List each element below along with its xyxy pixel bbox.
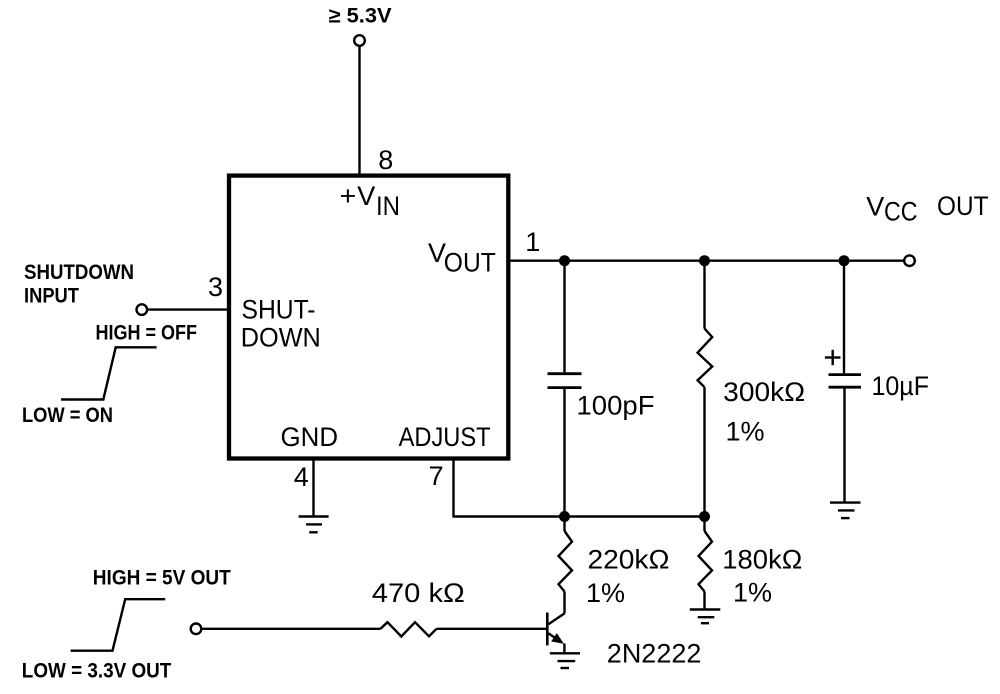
svg-text:470 kΩ: 470 kΩ	[372, 578, 465, 608]
terminal VCC OUT circle	[904, 255, 915, 266]
svg-text:3: 3	[208, 272, 223, 302]
wire pin 7 to adjust rail	[452, 458, 454, 517]
junction node dot D (adjust/220k)	[559, 511, 570, 522]
svg-text:DOWN: DOWN	[241, 323, 321, 353]
resistor R2 220k	[563, 517, 565, 532]
svg-text:OUT: OUT	[444, 248, 496, 278]
wire terminal to R4	[202, 628, 381, 630]
shutdown input terminal circle	[137, 304, 148, 315]
input terminal circle (base drive)	[191, 624, 202, 635]
svg-text:ADJUST: ADJUST	[399, 422, 491, 452]
svg-text:HIGH = OFF: HIGH = OFF	[96, 322, 198, 345]
svg-text:1: 1	[525, 227, 540, 257]
svg-text:+: +	[340, 181, 357, 211]
svg-text:1%: 1%	[586, 578, 625, 608]
resistor R3 180k	[703, 517, 705, 532]
svg-text:≥ 5.3V: ≥ 5.3V	[329, 5, 392, 28]
svg-text:INPUT: INPUT	[24, 285, 79, 308]
wire shutdown terminal to pin 3	[148, 308, 229, 310]
svg-text:V: V	[866, 191, 884, 221]
junction node dot C (Vout/10uF)	[839, 255, 850, 266]
wire Vout rail	[509, 260, 904, 262]
wire pin 4 to ground	[312, 458, 314, 516]
svg-text:2N2222: 2N2222	[607, 639, 702, 669]
capacitor C1 100pF	[563, 261, 565, 373]
svg-text:CC: CC	[884, 197, 918, 227]
resistor R4 470k	[381, 622, 437, 636]
svg-text:7: 7	[429, 461, 444, 491]
ground for R3	[690, 608, 721, 610]
svg-text:1%: 1%	[733, 578, 772, 608]
transistor Q1 2N2222	[546, 613, 549, 646]
waveform step (base input)	[71, 599, 166, 651]
IC U1 regulator box	[229, 176, 508, 459]
svg-text:GND: GND	[281, 422, 339, 452]
svg-text:100pF: 100pF	[577, 391, 655, 421]
junction node dot A (Vout/100pF)	[559, 255, 570, 266]
svg-text:8: 8	[378, 145, 393, 175]
resistor R1 300k	[703, 261, 705, 329]
svg-text:10µF: 10µF	[872, 371, 930, 401]
wire supply to pin 8	[358, 46, 360, 175]
junction node dot E (adjust/180k)	[699, 511, 710, 522]
svg-text:OUT: OUT	[937, 191, 989, 221]
supply terminal circle	[354, 35, 365, 46]
wire R4 to base	[437, 628, 547, 630]
svg-text:SHUTDOWN: SHUTDOWN	[24, 261, 134, 284]
ground for pin 4	[299, 515, 329, 517]
waveform step (shutdown)	[61, 347, 157, 399]
svg-text:300kΩ: 300kΩ	[723, 377, 805, 407]
svg-text:SHUT-: SHUT-	[242, 295, 316, 325]
junction node dot B (Vout/300k)	[699, 255, 710, 266]
svg-text:LOW = ON: LOW = ON	[22, 404, 113, 427]
ground for C2	[830, 501, 861, 503]
svg-text:V: V	[357, 181, 375, 211]
capacitor C2 10uF polarized	[843, 261, 845, 374]
svg-text:220kΩ: 220kΩ	[588, 545, 670, 575]
svg-text:HIGH = 5V OUT: HIGH = 5V OUT	[93, 567, 231, 590]
svg-text:LOW = 3.3V OUT: LOW = 3.3V OUT	[22, 660, 172, 683]
svg-text:1%: 1%	[726, 417, 765, 447]
svg-text:4: 4	[294, 462, 309, 492]
svg-text:180kΩ: 180kΩ	[722, 545, 802, 575]
svg-text:IN: IN	[376, 191, 400, 221]
ground for Q1 emitter	[550, 652, 580, 654]
